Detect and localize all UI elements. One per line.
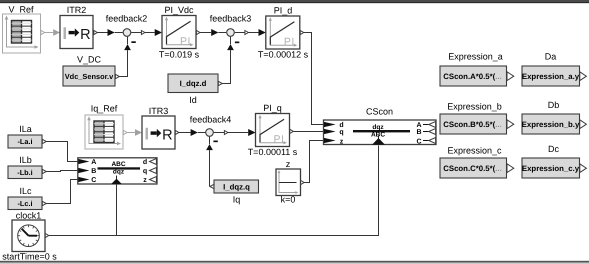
output block Dc	[522, 144, 587, 178]
svg-text:startTime=0 s: startTime=0 s	[2, 251, 57, 261]
sensor block Vdc_Sensor.v	[63, 55, 119, 87]
svg-text:clock1: clock1	[16, 211, 42, 221]
wire feedback2 to PI_Vdc	[145, 29, 162, 36]
controller PI_q	[248, 103, 298, 157]
summing junction feedback3	[210, 14, 252, 44]
top border	[0, 0, 589, 3]
svg-text:-Lc.i: -Lc.i	[18, 199, 33, 208]
svg-text:A: A	[91, 159, 96, 166]
svg-text:ITR2: ITR2	[67, 5, 87, 15]
table source Iq_Ref	[85, 103, 127, 149]
controller PI_d	[258, 6, 309, 60]
svg-text:I_dqz.d: I_dqz.d	[180, 79, 207, 88]
svg-text:I: I	[144, 124, 149, 143]
wire Vdc_Sensor.v to feedback2	[119, 37, 130, 77]
wire I_dqz.d to feedback3	[222, 37, 234, 84]
wire V_Ref to ITR2	[45, 29, 60, 36]
transform block ABC to dqz	[78, 158, 157, 184]
current sense block ILb	[8, 155, 46, 179]
controller PI_Vdc	[159, 5, 200, 59]
svg-text:feedback2: feedback2	[106, 14, 148, 24]
svg-text:Dc: Dc	[548, 144, 559, 154]
table source V_Ref	[3, 4, 45, 53]
svg-text:PI: PI	[284, 36, 295, 48]
svg-text:ABC: ABC	[111, 161, 125, 168]
svg-text:dqz: dqz	[113, 169, 125, 176]
svg-text:feedback3: feedback3	[210, 14, 252, 24]
wire PI_Vdc to feedback3	[200, 29, 226, 36]
output block Da	[522, 51, 587, 86]
wire ILb to transform B input	[46, 171, 78, 172]
svg-text:Iq: Iq	[233, 195, 241, 205]
svg-text:R: R	[80, 27, 90, 43]
bottom border	[0, 261, 589, 263]
expression block Expression_b	[440, 101, 514, 134]
svg-text:CScon.B*0.5*(...: CScon.B*0.5*(...	[443, 120, 502, 129]
svg-text:Id: Id	[189, 95, 197, 105]
sensor block I_dqz.d	[168, 74, 222, 105]
svg-text:B: B	[416, 129, 421, 136]
summing junction feedback2	[106, 14, 148, 43]
svg-text:d: d	[143, 158, 147, 166]
sensor block I_dqz.q	[210, 180, 259, 205]
svg-text:Expression_a: Expression_a	[448, 51, 503, 61]
svg-text:V_Ref: V_Ref	[8, 4, 34, 14]
svg-text:R: R	[162, 127, 172, 143]
svg-text:CScon.C*0.5*(...: CScon.C*0.5*(...	[443, 164, 502, 173]
svg-text:ILc: ILc	[19, 186, 32, 196]
svg-text:feedback4: feedback4	[190, 114, 232, 124]
svg-text:z: z	[143, 177, 147, 184]
current sense block ILc	[8, 186, 46, 210]
svg-text:C: C	[416, 138, 421, 145]
svg-text:Vdc_Sensor.v: Vdc_Sensor.v	[65, 72, 114, 81]
svg-text:CScon: CScon	[366, 106, 393, 116]
svg-text:T=0.00012 s: T=0.00012 s	[258, 50, 309, 60]
svg-text:z: z	[340, 138, 344, 145]
converter block ITR3	[142, 106, 179, 149]
svg-text:ILb: ILb	[19, 155, 32, 165]
svg-text:q: q	[143, 168, 147, 175]
svg-text:I_dqz.q: I_dqz.q	[223, 182, 250, 191]
svg-text:Db: Db	[548, 100, 560, 110]
svg-text:z: z	[286, 159, 291, 169]
svg-text:Expression_b: Expression_b	[447, 101, 502, 111]
svg-text:PI_Vdc: PI_Vdc	[164, 5, 194, 15]
svg-text:V_DC: V_DC	[77, 55, 102, 65]
svg-text:Expression_c.y: Expression_c.y	[522, 164, 580, 173]
wire Iq_Ref to ITR3	[127, 129, 142, 136]
svg-text:d: d	[339, 121, 343, 129]
wire z to CScon z input	[304, 141, 323, 183]
svg-text:Da: Da	[545, 51, 557, 61]
svg-text:PI_q: PI_q	[263, 103, 282, 113]
wire ILa to transform A input	[46, 142, 78, 162]
wire I_dqz.q to feedback4	[206, 137, 213, 187]
svg-text:ILa: ILa	[19, 124, 32, 134]
svg-text:-La.i: -La.i	[18, 137, 33, 146]
svg-text:T=0.00011 s: T=0.00011 s	[248, 147, 298, 157]
svg-text:I: I	[62, 24, 67, 43]
svg-text:k=0: k=0	[281, 195, 296, 205]
svg-text:dqz: dqz	[372, 124, 384, 131]
svg-text:C: C	[91, 177, 96, 184]
wire clock1 to transforms	[49, 146, 379, 236]
svg-text:Iq_Ref: Iq_Ref	[91, 103, 118, 113]
wire PI_d to CScon d input	[304, 33, 324, 125]
transform block CScon	[324, 106, 437, 145]
converter block ITR2	[60, 5, 97, 49]
wire feedback4 to PI_q	[228, 129, 256, 136]
svg-text:B: B	[91, 168, 96, 175]
constant block z	[276, 159, 304, 205]
svg-text:q: q	[339, 129, 343, 136]
svg-text:A: A	[416, 122, 421, 129]
wire ITR2 to feedback2	[97, 29, 123, 36]
svg-text:T=0.019 s: T=0.019 s	[159, 49, 200, 59]
svg-text:-Lb.i: -Lb.i	[17, 168, 32, 177]
current sense block ILa	[8, 124, 46, 148]
svg-text:Expression_a.y: Expression_a.y	[522, 72, 580, 81]
svg-text:PI: PI	[274, 134, 285, 146]
clock source clock1	[2, 211, 57, 262]
summing junction feedback4	[190, 114, 232, 142]
wire ILc to transform C input	[46, 180, 78, 204]
svg-text:Expression_b.y: Expression_b.y	[522, 120, 580, 129]
expression block Expression_c	[440, 145, 514, 178]
expression block Expression_a	[440, 51, 514, 86]
svg-text:CScon.A*0.5*(...: CScon.A*0.5*(...	[443, 72, 502, 81]
wire PI_q to CScon q input	[293, 131, 323, 133]
wire ITR3 to feedback4	[179, 129, 206, 136]
wire feedback3 to PI_d	[248, 29, 265, 36]
svg-text:PI: PI	[180, 36, 191, 48]
svg-text:ITR3: ITR3	[149, 106, 169, 116]
svg-text:PI_d: PI_d	[274, 6, 293, 16]
output block Db	[522, 100, 587, 134]
svg-text:Expression_c: Expression_c	[447, 145, 502, 155]
